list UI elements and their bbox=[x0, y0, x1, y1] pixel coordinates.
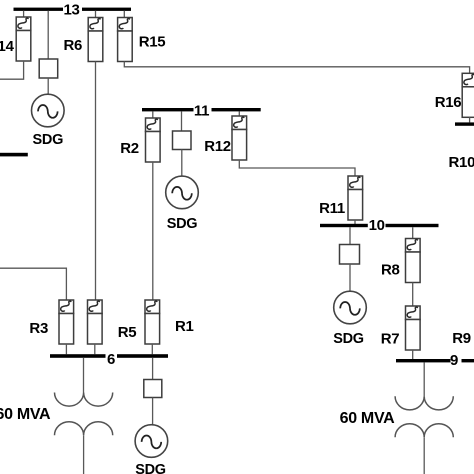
wire R6 down to R5 bbox=[95, 62, 97, 301]
wire T1 to generator G1 bbox=[47, 78, 49, 95]
recloser R1 bbox=[145, 300, 194, 344]
svg-text:6: 6 bbox=[107, 351, 115, 368]
wire T3 to generator G3 bbox=[349, 264, 351, 291]
recloser R2 bbox=[120, 118, 160, 162]
wire TR2 secondary down bbox=[423, 437, 425, 474]
transformer TR1 secondary bbox=[55, 422, 113, 436]
svg-text:R10: R10 bbox=[449, 154, 474, 171]
svg-text:13: 13 bbox=[63, 2, 79, 19]
svg-text:R14: R14 bbox=[0, 38, 15, 55]
wire bus6 to transformer TR1 bbox=[83, 358, 85, 393]
bus 13 bbox=[14, 2, 132, 19]
wire bus13 to transformer box T1 bbox=[47, 11, 49, 59]
transformer TR1 primary bbox=[55, 393, 113, 407]
svg-text:R16: R16 bbox=[435, 94, 462, 111]
wire TR1 secondary down bbox=[83, 435, 85, 474]
wire bus13 to R14 bbox=[23, 11, 25, 17]
wire R2 down to R1 bbox=[152, 162, 154, 300]
svg-text:60 MVA: 60 MVA bbox=[0, 406, 51, 423]
recloser R3 bbox=[29, 300, 73, 344]
bus stub left edge bbox=[0, 153, 28, 157]
recloser R8 bbox=[381, 239, 420, 283]
svg-text:R12: R12 bbox=[204, 138, 231, 155]
wire R12 elbow down to R11 bbox=[239, 160, 355, 176]
transformer box T1 bbox=[39, 59, 58, 78]
wire R8 to R7 bbox=[412, 283, 414, 307]
svg-text:R2: R2 bbox=[120, 140, 139, 157]
svg-text:SDG: SDG bbox=[135, 462, 166, 474]
svg-text:R8: R8 bbox=[381, 262, 400, 279]
recloser R16 bbox=[435, 73, 474, 117]
wire R15 elbow to R16 bbox=[124, 62, 469, 74]
wire bus13 to R6 bbox=[95, 11, 97, 18]
svg-text:SDG: SDG bbox=[333, 331, 364, 347]
svg-text:R15: R15 bbox=[139, 33, 166, 50]
wire R16 to bus stub bbox=[469, 117, 471, 122]
bus stub under R16 bbox=[455, 122, 474, 125]
svg-text:11: 11 bbox=[194, 102, 209, 119]
svg-text:SDG: SDG bbox=[33, 132, 64, 148]
wires reclosers to bus 6 bbox=[65, 344, 67, 354]
wire R11 to bus10 bbox=[354, 220, 356, 224]
svg-text:9: 9 bbox=[450, 352, 458, 369]
wire bus6 to transformer box T4 bbox=[152, 358, 154, 380]
bus 9 bbox=[396, 352, 474, 369]
transformer box T3 bbox=[340, 245, 360, 265]
svg-text:60 MVA: 60 MVA bbox=[340, 410, 396, 427]
bus 6 bbox=[50, 351, 168, 368]
wire R14 elbow to left edge bbox=[0, 61, 24, 79]
recloser R7 bbox=[381, 306, 420, 350]
transformer box T2 bbox=[173, 131, 192, 150]
transformer box T4 bbox=[144, 380, 162, 398]
recloser R12 bbox=[204, 116, 246, 160]
generator G3 SDG bbox=[333, 291, 366, 347]
generator G2 SDG bbox=[166, 176, 199, 232]
svg-text:R3: R3 bbox=[29, 320, 48, 337]
recloser R6 bbox=[64, 18, 103, 62]
svg-text:R5: R5 bbox=[118, 324, 137, 341]
svg-text:R9: R9 bbox=[452, 330, 471, 347]
recloser R11 bbox=[319, 176, 362, 220]
wire bus10 to R8 bbox=[412, 227, 414, 238]
bus 11 bbox=[142, 102, 261, 119]
svg-text:10: 10 bbox=[369, 217, 385, 234]
bus 10 bbox=[320, 217, 439, 234]
transformer TR2 secondary bbox=[395, 424, 453, 438]
wire from left edge to R3 bbox=[0, 268, 66, 300]
wire bus11 to transformer box T2 bbox=[181, 111, 183, 131]
svg-text:R7: R7 bbox=[381, 330, 400, 347]
recloser R15 bbox=[118, 18, 166, 62]
wire bus11 to R12 bbox=[238, 111, 240, 116]
wire R7 to bus9 bbox=[412, 350, 414, 359]
svg-text:R1: R1 bbox=[175, 318, 194, 335]
wire bus10 to transformer box T3 bbox=[349, 227, 351, 244]
generator G4 SDG bbox=[135, 425, 168, 474]
recloser R14 bbox=[0, 17, 31, 61]
wire T2 to generator G2 bbox=[181, 150, 183, 177]
wire bus11 to R2 bbox=[152, 111, 154, 118]
generator G1 SDG bbox=[32, 94, 65, 148]
svg-text:R11: R11 bbox=[319, 200, 345, 217]
transformer TR2 primary bbox=[395, 396, 453, 410]
wire bus9 to transformer TR2 bbox=[423, 362, 425, 396]
wire T4 to generator G4 bbox=[152, 398, 154, 425]
recloser R5 bbox=[88, 300, 137, 344]
svg-text:R6: R6 bbox=[64, 37, 83, 54]
wire bus13 to R15 bbox=[123, 11, 125, 18]
svg-text:SDG: SDG bbox=[167, 216, 198, 232]
